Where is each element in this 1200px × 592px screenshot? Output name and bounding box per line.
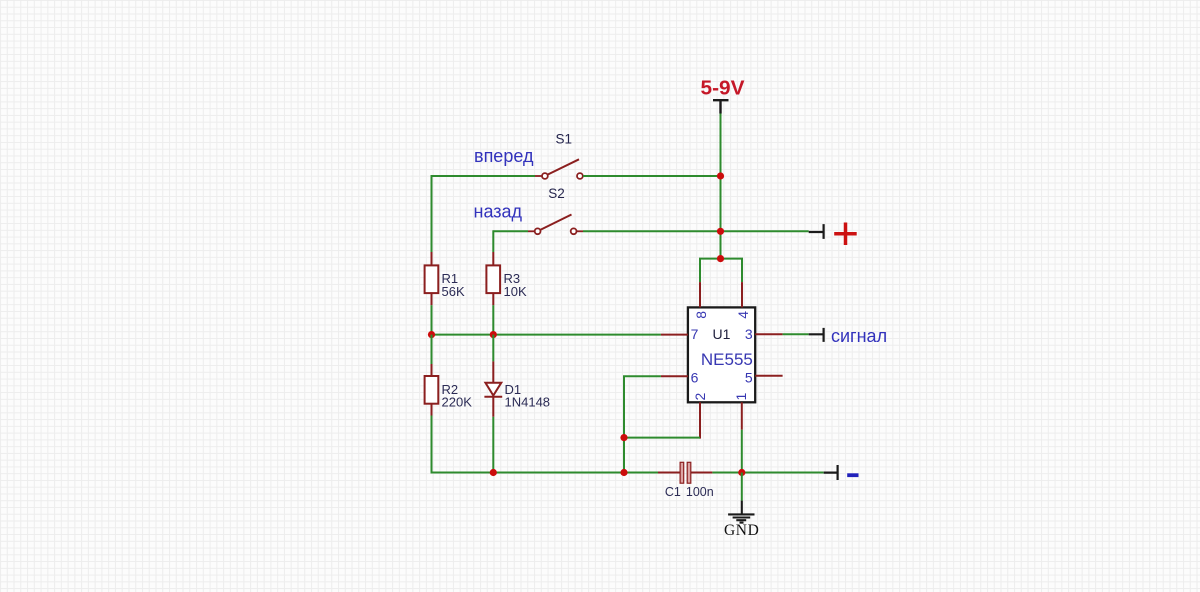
resistor R2 [425, 376, 439, 404]
svg-text:U1: U1 [713, 326, 731, 342]
svg-text:3: 3 [745, 326, 753, 342]
svg-text:6: 6 [691, 370, 699, 386]
plus symbol [834, 223, 857, 246]
junction dot rail pin6 [620, 469, 627, 476]
svg-text:C1 100n: C1 100n [665, 485, 714, 499]
wire node row to pin 7 [432, 334, 661, 336]
svg-text:5: 5 [745, 370, 753, 386]
switch S1 [535, 159, 583, 179]
pin 1 stub [741, 402, 743, 429]
wire bottom rail left [432, 472, 659, 473]
svg-text:NE555: NE555 [701, 350, 753, 369]
terminal minus [824, 465, 838, 480]
svg-text:8: 8 [693, 311, 709, 319]
wire R3 node down to D1 [492, 335, 494, 362]
pin 6 stub [661, 375, 688, 377]
junction dot S1/Vcc [717, 172, 724, 179]
pin 5 stub [755, 375, 782, 377]
wire pin 1 down to rail [741, 430, 743, 473]
svg-text:GND: GND [724, 522, 759, 539]
junction dot rail GND [738, 469, 745, 476]
svg-text:S1: S1 [556, 132, 573, 147]
resistor R3 pin stubs [492, 252, 494, 305]
minus symbol [847, 473, 858, 477]
power terminal bar [713, 100, 729, 113]
resistor R2 pin stubs [431, 364, 433, 416]
pin 7 stub [661, 334, 688, 336]
junction dot rail D1 [490, 469, 497, 476]
junction dot R3 node [490, 331, 497, 338]
svg-text:10K: 10K [504, 284, 527, 299]
svg-text:4: 4 [735, 311, 751, 319]
pin 2 stub [699, 402, 701, 438]
svg-text:1: 1 [733, 392, 749, 400]
wire S2 left horizontal [493, 230, 528, 232]
wire R2 down to rail [431, 416, 433, 473]
svg-text:5-9V: 5-9V [701, 77, 745, 99]
wire pin 6 node to pin 2 [624, 437, 700, 439]
wire R3 down to node row [492, 305, 494, 335]
wire S2 left vertical to R3 [492, 230, 494, 252]
terminal plus [809, 224, 824, 239]
wire R1 down to node row [431, 305, 433, 335]
op IC U1 NE555 box [688, 307, 755, 402]
pin 4 stub [741, 282, 743, 307]
svg-text:назад: назад [474, 202, 523, 222]
wire pin 6 left and down [624, 376, 661, 472]
resistor R1 [425, 265, 439, 293]
junction dot pin6/pin2 [620, 434, 627, 441]
wire Vcc bracket to pins 8 and 4 [700, 259, 742, 283]
svg-text:56K: 56K [442, 284, 465, 299]
svg-text:S2: S2 [548, 186, 565, 201]
diode D1 [484, 361, 502, 416]
pin 8 stub [699, 282, 701, 307]
svg-text:2: 2 [692, 392, 708, 400]
wire GND drop [741, 473, 743, 501]
wire S1 right to junction [583, 175, 721, 177]
ground symbol [728, 501, 754, 523]
wire D1 down to rail [492, 417, 494, 473]
wire S2 right to plus terminal [583, 230, 809, 232]
resistor R1 pin stubs [431, 252, 433, 305]
terminal signal [809, 328, 824, 342]
wire pin 3 to signal terminal [783, 333, 809, 335]
capacitor C1 plates [680, 462, 684, 483]
wire R1 node down to R2 [431, 335, 433, 364]
junction dot bracket [717, 255, 724, 262]
switch S2 [528, 215, 583, 235]
svg-text:сигнал: сигнал [831, 326, 887, 346]
junction dot R1 node [428, 331, 435, 338]
pin 3 stub [755, 333, 782, 335]
capacitor C1 leads [658, 472, 712, 474]
wire main vertical supply [720, 114, 722, 259]
svg-text:вперед: вперед [474, 146, 534, 166]
junction dot S2/Vcc [717, 228, 724, 235]
resistor R3 [486, 265, 500, 293]
svg-text:7: 7 [691, 326, 699, 342]
svg-text:1N4148: 1N4148 [505, 395, 551, 410]
wire S1 left horizontal [432, 175, 536, 177]
wire S1 left vertical to R1 [431, 175, 433, 252]
wire rail C1 to minus terminal [712, 472, 823, 474]
svg-text:220K: 220K [442, 395, 473, 410]
